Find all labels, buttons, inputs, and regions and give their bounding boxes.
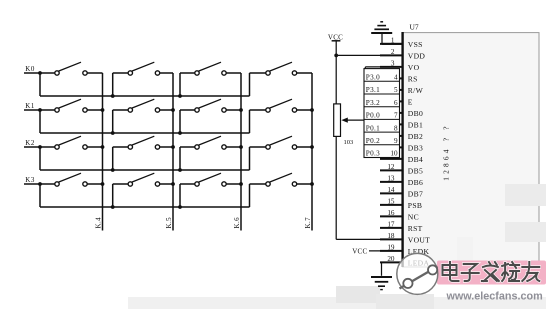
svg-text:8: 8 xyxy=(394,124,398,132)
svg-text:VSS: VSS xyxy=(408,40,423,49)
svg-text:E: E xyxy=(408,97,413,106)
svg-text:PSB: PSB xyxy=(408,201,422,210)
svg-text:RS: RS xyxy=(408,74,418,83)
svg-text:12: 12 xyxy=(387,163,395,171)
svg-text:9: 9 xyxy=(394,137,398,145)
svg-text:DB6: DB6 xyxy=(408,178,423,187)
svg-text:P0.0: P0.0 xyxy=(366,112,380,120)
svg-text:5: 5 xyxy=(394,86,398,94)
svg-text:K.4: K.4 xyxy=(94,217,102,229)
svg-text:P3.0: P3.0 xyxy=(366,74,380,82)
svg-text:R/W: R/W xyxy=(408,86,424,95)
svg-text:4: 4 xyxy=(394,74,398,82)
svg-text:P3.2: P3.2 xyxy=(366,99,380,107)
svg-text:P0.2: P0.2 xyxy=(366,137,380,145)
svg-text:VOUT: VOUT xyxy=(408,235,430,244)
svg-text:K0: K0 xyxy=(25,65,35,73)
svg-text:DB7: DB7 xyxy=(408,189,423,198)
svg-text:6: 6 xyxy=(394,99,398,107)
svg-text:DB0: DB0 xyxy=(408,109,423,118)
svg-text:K1: K1 xyxy=(25,102,35,110)
svg-text:DB2: DB2 xyxy=(408,132,423,141)
svg-text:10: 10 xyxy=(390,150,398,158)
svg-text:U7: U7 xyxy=(410,23,419,32)
svg-text:P3.1: P3.1 xyxy=(366,86,380,94)
svg-text:17: 17 xyxy=(387,221,395,229)
svg-text:P0.1: P0.1 xyxy=(366,124,380,132)
svg-text:K2: K2 xyxy=(25,139,35,147)
svg-text:DB5: DB5 xyxy=(408,166,423,175)
svg-text:RST: RST xyxy=(408,224,423,233)
svg-text:K3: K3 xyxy=(25,176,35,184)
svg-text:VCC: VCC xyxy=(352,248,367,256)
svg-text:VO: VO xyxy=(408,63,420,72)
svg-text:7: 7 xyxy=(394,112,398,120)
svg-text:15: 15 xyxy=(387,198,395,206)
svg-text:103: 103 xyxy=(344,139,354,146)
svg-text:12864 ? ?: 12864 ? ? xyxy=(442,123,451,181)
svg-text:P0.3: P0.3 xyxy=(366,150,380,158)
svg-text:16: 16 xyxy=(387,209,395,217)
svg-text:13: 13 xyxy=(387,175,395,183)
svg-text:K.5: K.5 xyxy=(165,217,173,229)
svg-text:DB3: DB3 xyxy=(408,143,423,152)
svg-text:www.elecfans.com: www.elecfans.com xyxy=(446,291,543,303)
svg-text:14: 14 xyxy=(387,186,395,194)
svg-text:NC: NC xyxy=(408,212,419,221)
svg-text:K.7: K.7 xyxy=(304,217,312,229)
svg-text:DB4: DB4 xyxy=(408,155,423,164)
svg-text:K.6: K.6 xyxy=(233,217,241,229)
svg-text:VDD: VDD xyxy=(408,51,426,60)
svg-text:DB1: DB1 xyxy=(408,120,423,129)
